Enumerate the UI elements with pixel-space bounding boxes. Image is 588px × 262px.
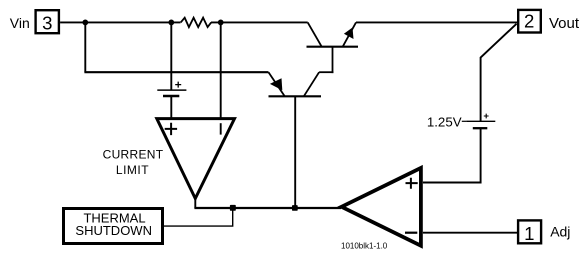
transistor Q2 emitter lead	[269, 72, 285, 96]
wire comparator output	[194, 198, 196, 208]
comparator CURRENT LIMIT	[157, 119, 235, 199]
wire Q2 base	[294, 96, 296, 208]
comparator minus input mark	[220, 123, 222, 134]
svg-text:SHUTDOWN: SHUTDOWN	[75, 223, 152, 238]
op-amp minus input mark	[405, 232, 417, 234]
node resistor right	[218, 20, 224, 26]
svg-text:2: 2	[524, 10, 534, 31]
wire Vin branch vertical	[84, 22, 86, 72]
comparator plus input mark	[165, 123, 177, 135]
wire sense source to comparator	[170, 96, 172, 118]
wire resistor-left to sense source	[170, 22, 172, 90]
voltage source bottom plate	[163, 95, 179, 98]
transistor Q2 collector lead	[304, 72, 319, 96]
node thermal junction	[230, 205, 236, 211]
voltage source top plate	[157, 89, 186, 91]
wire reference to op-amp plus input	[423, 128, 481, 182]
battery top plate	[466, 120, 495, 122]
voltage source (current limit sense) plus sign	[175, 82, 181, 88]
op-amp plus input mark	[406, 178, 418, 189]
node Q2 base junction	[292, 205, 298, 211]
battery 1.25V reference plus sign	[484, 114, 489, 119]
wire thermal shutdown output	[164, 208, 233, 226]
wire control line	[194, 207, 341, 209]
node Vin junction	[82, 20, 88, 26]
transistor Q1 emitter lead	[343, 22, 356, 46]
wire input rail right	[211, 21, 308, 23]
svg-text:1.25V: 1.25V	[427, 115, 462, 130]
pin box 1	[518, 220, 541, 243]
svg-text:3: 3	[42, 13, 52, 34]
wire Vin branch horizontal to Q2 emitter	[84, 71, 268, 73]
op-amp error amplifier	[342, 168, 421, 246]
wire Q2 collector to Q1 base jog	[319, 71, 333, 73]
THERMAL SHUTDOWN box	[64, 209, 163, 244]
leader tick 1.25V	[462, 120, 467, 122]
resistor R (current sense)	[181, 18, 212, 27]
wire Vout to reference	[481, 24, 517, 122]
wire output rail	[356, 21, 517, 23]
transistor Q2 (PNP driver) base bar	[269, 95, 322, 97]
transistor Q1 collector lead	[308, 22, 322, 46]
pin box 3	[36, 10, 59, 33]
wire Q1 base	[332, 47, 334, 73]
wire resistor-right to comparator	[220, 22, 222, 118]
transistor Q1 emitter arrow	[344, 28, 354, 40]
svg-text:CURRENT: CURRENT	[103, 148, 164, 162]
svg-text:Vin: Vin	[10, 15, 30, 31]
svg-text:LIMIT: LIMIT	[116, 163, 149, 177]
svg-text:1010blk1-1.0: 1010blk1-1.0	[341, 241, 388, 250]
transistor Q2 emitter arrow	[270, 78, 282, 90]
svg-text:1: 1	[524, 223, 534, 244]
transistor Q1 (NPN pass) base bar	[307, 46, 359, 48]
battery bottom plate	[473, 127, 488, 129]
wire input rail left	[60, 21, 180, 23]
wire op-amp minus input to Adj	[423, 232, 517, 234]
svg-text:Adj: Adj	[550, 224, 570, 240]
svg-text:Vout: Vout	[549, 15, 580, 32]
pin box 2	[518, 10, 541, 33]
node resistor left	[168, 20, 174, 26]
